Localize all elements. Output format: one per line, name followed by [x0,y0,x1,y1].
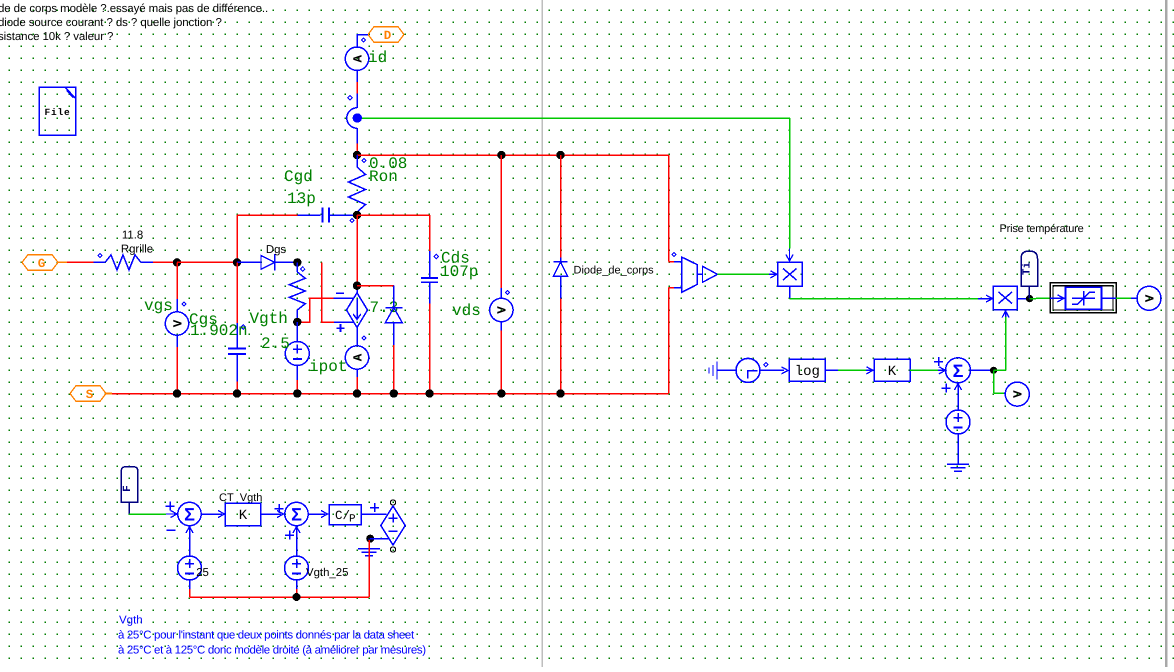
svg-text:2.5: 2.5 [261,335,290,353]
svg-text:A: A [351,54,365,62]
svg-text:id: id [368,49,387,67]
wire green drain sense to multiplier [362,118,790,249]
arrow SUM1 bottom input [186,527,193,541]
svg-text:diode source courant ? ds ? qu: diode source courant ? ds ? quelle jonct… [0,17,222,29]
source Vgth_25 [285,540,309,597]
label vds [452,302,481,320]
svg-text:C/: C/ [335,509,350,523]
svg-text:25: 25 [196,567,209,579]
junction vcvs minus [366,535,374,543]
voltmeter vds [490,155,513,394]
arrow SUM2 bottom input [293,527,300,541]
arrow into multiplier M2 bottom [1002,310,1009,318]
svg-text:Prise température: Prise température [1000,223,1084,235]
svg-text:P: P [349,514,356,526]
svg-text:vgs: vgs [144,297,173,315]
label Cgd [284,168,313,186]
label Rgrille value 11.8 [122,230,143,242]
label plus SUM2 bottom [285,530,294,539]
svg-text:G: G [38,257,46,271]
block LOG1 [789,359,825,381]
wire vccs top to diode [357,285,394,287]
wire K1 to SUM2 [261,511,284,518]
voltmeter temperature out [1137,286,1161,310]
pin marker below ammeter [348,96,352,100]
diode Diode_de_corps [554,155,568,394]
ground vcvs [358,539,380,556]
svg-text:S: S [86,388,94,402]
label vgs [144,297,173,315]
wire source rail [106,393,669,395]
label plus SUM2 left [274,504,283,513]
svg-text:Rgrille: Rgrille [121,244,153,256]
wire node arc to junction [356,128,358,155]
summer SUM1 [178,502,201,525]
pin marker near D [361,38,365,42]
source 25C ref [178,540,202,597]
junction vgs top [173,258,181,266]
svg-text:V: V [171,319,185,327]
wire log to K [825,367,873,374]
ammeter ipot [345,328,368,394]
ground below source [947,464,969,471]
junction vds top [497,151,505,159]
wire junction to voltmeter V4 [994,370,1006,393]
resistor divider R_vgth [289,262,305,322]
pin marker Cds [434,254,438,258]
svg-text:Vgth_25: Vgth_25 [306,567,348,579]
svg-text:File: File [44,107,70,118]
vccs 7.3 diamond [347,286,368,328]
svg-text:sistance 10k ? valeur ?: sistance 10k ? valeur ? [0,31,113,43]
wire G to Rgrille [58,261,105,263]
label plus SUM3 left [934,357,943,366]
diode D_pot [385,286,402,394]
diode Dgs [237,254,297,271]
page boundary line vertical center [541,0,543,667]
svg-text:13p: 13p [287,190,316,208]
wire bottom return rail [190,540,370,597]
multiplier M1 [778,262,803,286]
ammeter id U_id [345,47,368,70]
label id [368,49,387,67]
junction SUM3 out [990,367,997,374]
file block FILE1 [39,87,76,135]
source offset temperature [946,410,970,434]
wire Rgrille to vgs junction [153,261,177,263]
arrow into multiplier M1 left [771,271,778,278]
label Diode_de_corps [574,265,655,277]
junction rail D_pot [390,389,398,397]
junction return rail [293,593,301,601]
label 25 [196,567,209,579]
wire vcvs minus stub [370,538,389,540]
probe Ti [1021,251,1038,299]
node dot drain sense [353,113,362,122]
pin marker R_vgth [241,325,245,329]
svg-text:Ron: Ron [369,168,398,186]
junction Dgs cathode [293,258,301,266]
pin marker Ron [362,158,366,162]
label Rgrille [121,244,153,256]
pin marker step source [764,363,768,367]
svg-text:Σ: Σ [953,361,964,381]
junction diode_de_corps top [556,151,564,159]
source Vgth 2.5V [285,322,309,394]
svg-text:à 25°C et à 125°C donc modèle: à 25°C et à 125°C donc modèle droite (à … [118,645,426,657]
wire sensor lower to source rail [669,288,675,394]
wire drain rail top [357,154,669,156]
voltmeter V4 [1005,382,1029,406]
resistor Rgrille [105,255,153,270]
label Vgth_25 [306,567,348,579]
probe F temperature input [121,467,138,514]
svg-text:K: K [239,508,248,524]
wire to limiter [1030,297,1050,299]
wire SUM1 to K1 [201,511,224,518]
wire Ron bottom to Cds branch [357,214,430,216]
svg-text:CT_Vgth: CT_Vgth [219,492,262,504]
label Cgs value 1.902n [190,322,248,340]
svg-text:vds: vds [452,302,481,320]
label Ron value 0.08 [369,155,407,173]
label Ron [369,168,398,186]
label ipot [309,358,347,376]
svg-text:V: V [496,306,510,314]
page boundary line right [1165,0,1167,667]
wire vgs junction to Cgs junction [177,261,237,263]
wire CP to vcvs [361,513,386,515]
junction rail Cgs [233,389,241,397]
junction temperature node [1026,295,1033,302]
port D [368,27,404,43]
wire F probe to SUM1 green [129,511,177,518]
junction rail Cds [425,389,433,397]
block K1 gain [225,503,260,526]
resistor Ron [349,155,366,215]
junction rail vgs [173,389,181,397]
label vccs value 7.3 [370,299,399,317]
svg-text:Σ: Σ [291,505,302,525]
junction rail ipot [353,389,361,397]
wire limiter to voltmeter [1116,297,1137,299]
junction drain top [353,151,361,159]
label Cds [441,250,470,268]
summer SUM3 [946,358,971,383]
annotation text top-left [0,3,268,43]
wire SUM3 output [971,369,994,371]
svg-text:A: A [351,353,365,361]
port G [22,255,58,271]
buffer gain triangle [697,266,718,282]
wire M1 output [790,286,994,299]
junction rail vds [497,389,505,397]
label Cgs [189,311,218,329]
label minus SUM1 [166,529,175,531]
label plus vccs control [337,324,345,332]
wire SUM2 to CP [308,511,327,518]
arrow into multiplier M1 top [786,249,793,262]
wire vccs control lower arm [322,262,354,322]
label plus SUM1 [165,501,174,510]
wire ammeter to node arc [356,70,358,107]
label minus vccs control [336,292,344,294]
limiter block outer [1050,283,1116,313]
pin marker sensor [672,252,676,256]
voltmeter vgs [165,262,188,393]
pin marker ipot [362,336,366,340]
junction rail diode_de_corps [556,389,564,397]
svg-text:D: D [384,29,392,43]
wire Ron bottom down to vccs [356,215,358,286]
svg-text:F: F [122,485,134,492]
capacitor Cgs [228,262,246,393]
svg-text:K: K [888,364,897,380]
label Cds value 107p [440,263,478,281]
junction Vgth top [293,318,301,326]
wire step to log [760,367,788,374]
svg-text:1.902n: 1.902n [190,322,248,340]
block CP conversion [329,505,361,526]
pin marker Cgd [350,218,354,222]
label Prise température [1000,223,1084,235]
label Dgs [266,244,287,256]
label Vgth [250,310,288,328]
label Vgth value 2.5 [261,335,290,353]
summer SUM2 [285,502,308,525]
wire drain loop right side [669,155,675,262]
capacitor Cds [421,215,438,394]
arrow SUM3 bottom input [955,384,962,410]
wire D to ammeter [357,35,368,48]
label plus SUM3 bottom [941,383,950,392]
svg-text:Cgd: Cgd [284,168,313,186]
wire Cgd left leg [237,215,298,262]
junction Ron bottom [353,211,361,219]
svg-text:Vgth: Vgth [250,310,288,328]
junction vccs top [353,282,361,290]
voltage sensor VSEN1 trapezoid [674,257,697,293]
svg-text:Diode_de_corps: Diode_de_corps [574,265,655,277]
pin marker Dgs [301,267,305,271]
wire sensor output green [718,273,778,275]
limiter block inner saturation [1050,287,1116,309]
wire M2 output [1017,298,1029,300]
wire source to ground [957,434,959,464]
junction rail Vgth [293,389,301,397]
pin marker vgs [182,302,186,306]
svg-text:ipot: ipot [309,358,347,376]
label Cgd value 13p [287,190,316,208]
svg-text:Vgth: Vgth [119,615,143,627]
capacitor Cgd [298,207,357,222]
wire junction up to M2 [994,317,1006,370]
label plus vcvs input [370,503,379,512]
vcvs diamond CT output [381,500,405,552]
arrow into multiplier M2 left [986,295,993,302]
junction Cgs top [233,258,241,266]
svg-text:Σ: Σ [184,505,195,525]
label CT_Vgth [219,492,262,504]
svg-text:de de corps modèle ?.essayé m: de de corps modèle ?.essayé mais pas de … [0,3,268,15]
svg-text:11.8: 11.8 [122,230,143,242]
svg-text:V: V [1012,390,1026,398]
pin marker Rgrille [98,253,102,257]
wire vccs control upper arm [297,298,353,322]
pin marker vds [505,290,509,294]
svg-text:à 25°C pour l'instant que deux: à 25°C pour l'instant que deux points do… [118,630,415,642]
port S [70,386,106,402]
svg-text:107p: 107p [440,263,478,281]
svg-text:log: log [795,364,820,380]
wire K to summer SUM3 [910,367,946,374]
node arc hop [347,108,357,128]
svg-text:Dgs: Dgs [266,244,287,256]
svg-text:V: V [1143,294,1157,302]
annotation text bottom blue [118,615,426,657]
svg-text:Ti: Ti [1021,262,1033,276]
ground left of step source [709,362,717,380]
step source SQ1 [717,358,760,382]
block K2 gain [874,359,910,381]
multiplier M2 [993,286,1017,310]
